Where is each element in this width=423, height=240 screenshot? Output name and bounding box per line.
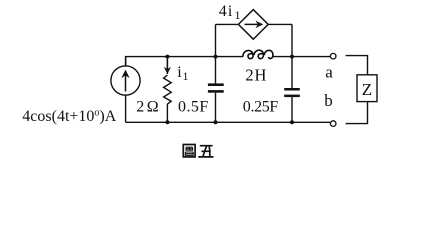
svg-text:4cos(4t+10o)A: 4cos(4t+10o)A — [22, 108, 116, 125]
svg-text:b: b — [324, 91, 333, 110]
node dot top C2 — [290, 55, 294, 59]
wire bottom rail — [126, 121, 331, 123]
svg-text:0.5F: 0.5F — [178, 99, 209, 116]
wire capacitor C1 branch lower — [215, 93, 217, 123]
svg-text:2H: 2H — [245, 66, 267, 85]
load Z box — [357, 75, 377, 102]
dependent current source U1 diamond — [238, 10, 268, 40]
wire dependent source right lead — [268, 23, 292, 25]
node dot bottom C2 — [290, 120, 294, 124]
current source I1 arrow — [121, 70, 129, 92]
svg-text:i1: i1 — [177, 64, 188, 83]
label load Z — [362, 80, 372, 99]
svg-text:0.25F: 0.25F — [243, 99, 279, 116]
wire capacitor C1 branch upper — [215, 24, 217, 83]
wire left branch below current source — [125, 95, 127, 122]
wire to load top — [346, 56, 368, 75]
label dependent source 4i1 — [219, 3, 242, 22]
capacitor C2 0.25F plates — [284, 88, 300, 97]
label capacitor C1 value 0.5F — [178, 99, 209, 116]
wire left branch above current source — [125, 57, 127, 66]
svg-text:2Ω: 2Ω — [136, 99, 159, 116]
label terminal b — [324, 91, 333, 110]
label capacitor C2 value 0.25F — [243, 99, 279, 116]
node dot bottom C1 — [214, 120, 218, 124]
dependent source U1 arrow — [245, 21, 264, 29]
wire capacitor C2 branch upper — [291, 24, 293, 88]
terminal a open circle — [330, 53, 336, 59]
svg-text:a: a — [325, 62, 333, 81]
wire capacitor C2 branch lower — [291, 97, 293, 122]
node dot top C1 — [214, 55, 218, 59]
caption figure five chinese characters — [183, 145, 213, 157]
svg-text:Z: Z — [362, 80, 372, 99]
label current i1 — [177, 64, 188, 83]
terminal b open circle — [330, 121, 336, 127]
wire resistor branch bottom lead — [166, 104, 168, 122]
node dot bottom resistor — [165, 120, 169, 124]
node dot top resistor — [165, 55, 169, 59]
inductor L1 2H coil — [243, 50, 273, 58]
label terminal a — [325, 62, 333, 81]
wire top rail right segment — [272, 56, 330, 58]
resistor R1 zigzag — [164, 75, 172, 104]
wire top rail left segment — [126, 57, 243, 66]
capacitor C1 0.5F plates — [208, 83, 224, 92]
wire dependent source left lead — [216, 23, 239, 25]
current arrow i1 — [164, 60, 171, 75]
wire resistor branch top lead — [166, 57, 168, 74]
current source I1 circle — [111, 66, 140, 95]
label source value 4cos(4t+10°)A — [22, 108, 116, 125]
svg-text:4i1: 4i1 — [219, 3, 242, 22]
label inductor value 2H — [245, 66, 267, 85]
character tu (figure) — [183, 145, 195, 157]
wire to load bottom — [346, 102, 368, 124]
character wu (five) — [198, 146, 213, 157]
label resistor value 2Ω — [136, 99, 159, 116]
